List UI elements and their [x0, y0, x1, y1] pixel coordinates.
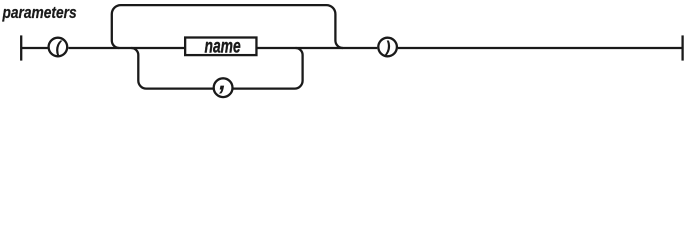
- svg-text:): ): [383, 38, 391, 56]
- svg-text:(: (: [55, 38, 63, 56]
- svg-text:,: ,: [218, 66, 226, 96]
- svg-text:parameters: parameters: [2, 4, 77, 23]
- svg-text:name: name: [205, 35, 241, 57]
